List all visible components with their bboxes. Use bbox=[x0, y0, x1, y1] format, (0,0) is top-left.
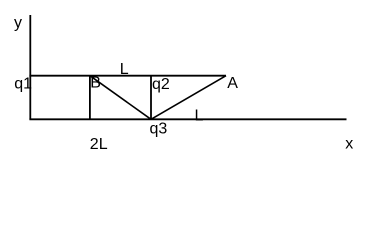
y-axis bbox=[29, 15, 31, 119]
svg-text:2L: 2L bbox=[90, 136, 108, 153]
wire diagonal B to q3 bbox=[90, 76, 151, 120]
wire top horizontal line from q1 to A bbox=[29, 75, 226, 77]
x-axis bbox=[29, 118, 346, 120]
wire vertical line at B bbox=[89, 76, 91, 120]
svg-text:B: B bbox=[90, 74, 101, 91]
svg-text:L: L bbox=[120, 61, 129, 78]
svg-text:q1: q1 bbox=[14, 76, 32, 93]
svg-text:y: y bbox=[14, 15, 22, 32]
wire vertical line q2 to q3 bbox=[150, 76, 152, 120]
svg-text:x: x bbox=[345, 136, 353, 153]
svg-text:q2: q2 bbox=[152, 76, 170, 93]
svg-text:L: L bbox=[195, 108, 204, 125]
svg-text:A: A bbox=[227, 75, 238, 92]
wire diagonal q3 to A bbox=[151, 76, 226, 120]
svg-text:q3: q3 bbox=[150, 121, 168, 138]
